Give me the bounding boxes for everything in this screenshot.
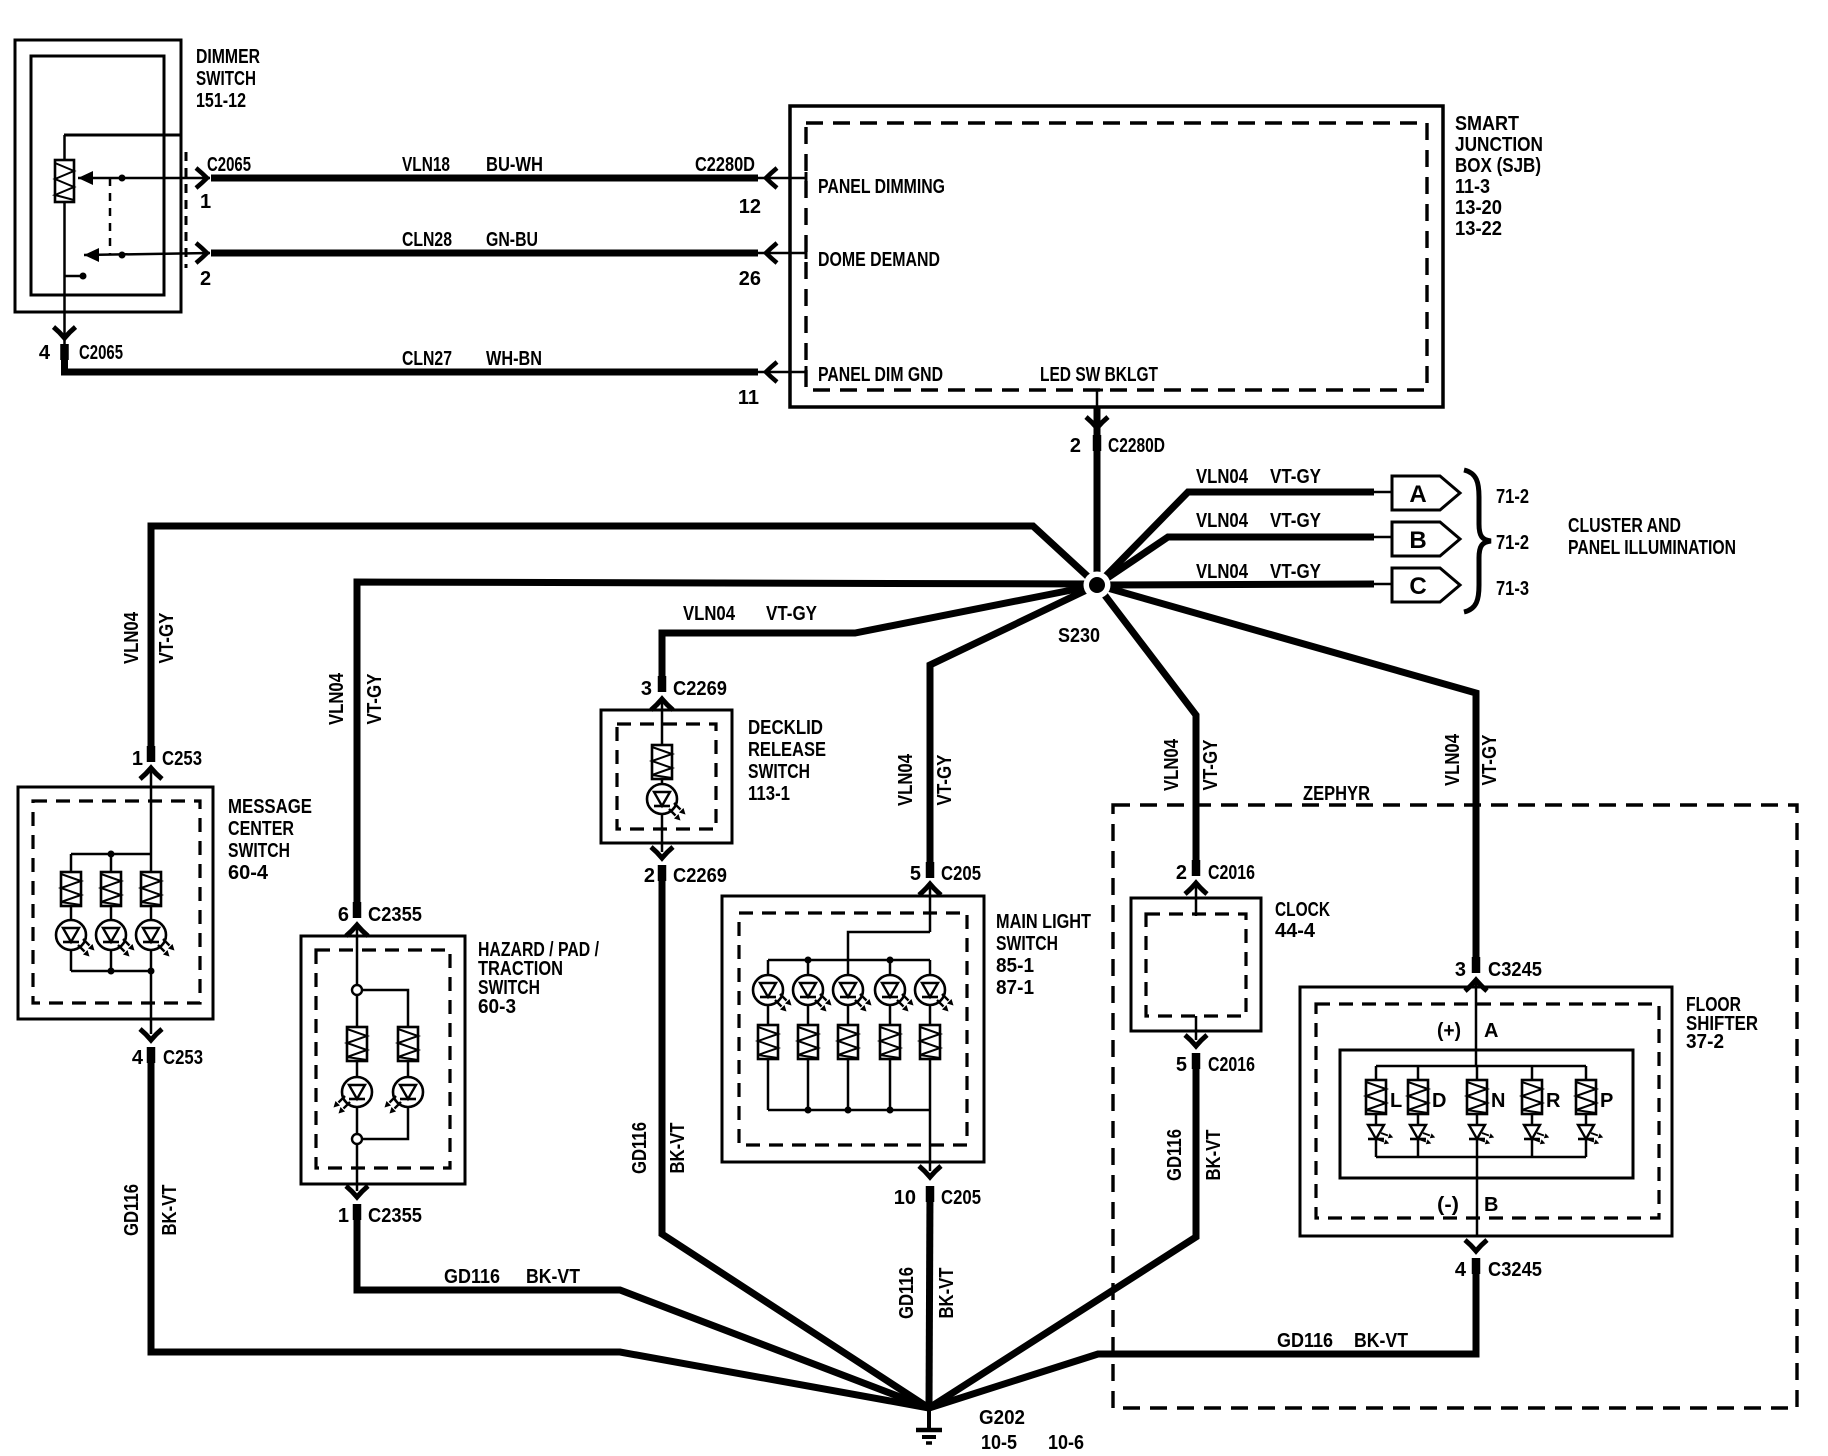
floor column N [1476,1066,1479,1079]
connector C pentagon [1392,568,1460,602]
svg-text:1: 1 [200,191,211,213]
wire [70,950,73,971]
main light column 1 [767,960,770,976]
svg-text:12: 12 [739,196,761,218]
wire out of main light box [929,1110,932,1171]
resistor msg 2 [101,872,121,906]
arrow down at C3245 pin 4 [1465,1240,1487,1251]
wire GD116 BK-VT decklid to ground [662,868,929,1408]
wire S230 to connector A [1097,492,1374,585]
arrow up at C2355 pin 6 [346,925,368,936]
resistor hazard left [347,1027,367,1061]
svg-text:P: P [1600,1090,1613,1112]
svg-text:N: N [1491,1090,1505,1112]
wire S230 to hazard switch [357,582,1097,906]
wire [661,779,664,784]
wire S230 to connector B [1097,537,1374,585]
svg-text:1: 1 [132,748,143,770]
svg-text:SWITCH: SWITCH [748,761,810,783]
wire GD116 BK-VT main light to ground [929,1190,930,1408]
svg-text:VT-GY: VT-GY [1270,561,1322,583]
hazard bottom junction circle [352,1134,362,1144]
junction dot wire 1 [119,175,126,182]
dashed link between wipers [109,178,112,255]
svg-text:C2280D: C2280D [695,154,755,176]
decklid release switch dashed box [617,724,716,829]
svg-text:VT-GY: VT-GY [364,673,386,725]
message center switch label [228,796,312,884]
svg-text:C2016: C2016 [1208,862,1255,884]
svg-text:C: C [1409,573,1426,600]
svg-text:VLN04: VLN04 [326,672,348,725]
svg-text:R: R [1546,1090,1561,1112]
arrow right C2065 pin 2 [196,243,207,263]
junction dots top bus [805,957,812,964]
svg-text:A: A [1484,1020,1498,1042]
svg-text:BK-VT: BK-VT [159,1185,181,1236]
wire into message center box [150,768,153,854]
wiper stub [65,275,80,278]
svg-text:C2269: C2269 [673,678,727,700]
wire [150,906,153,920]
decklid release switch outer box [601,710,732,843]
resistor msg 3 [141,872,161,906]
svg-text:B: B [1409,527,1426,554]
pin stub dome demand [758,252,806,255]
message center switch dashed box [33,801,200,1003]
svg-text:C2355: C2355 [368,904,422,926]
pin stub LED SW BKLGT [1096,390,1099,407]
wire S230 to floor shifter [1097,585,1476,963]
svg-text:CENTER: CENTER [228,818,294,840]
svg-text:2: 2 [1070,435,1081,457]
junction dot top bus [108,851,115,858]
connector tick C2355 pin 6 [356,902,358,918]
svg-text:S230: S230 [1058,625,1100,647]
svg-text:BOX (SJB): BOX (SJB) [1455,155,1541,177]
column 1 wire [70,854,73,872]
wire dimmer wiper feed 1 [78,177,210,180]
arrow down at C2280D pin 2 [1086,417,1108,428]
main light entry jog [848,932,930,960]
connector tick C3245 pin 4 [1475,1258,1477,1274]
svg-text:GD116: GD116 [629,1122,651,1174]
svg-text:B: B [1484,1194,1498,1216]
wire out of clock box [1195,1016,1198,1040]
svg-text:60-3: 60-3 [478,996,516,1018]
arrow up at C205 pin 5 [919,884,941,895]
wiper stub dot [80,273,87,280]
svg-text:SMART: SMART [1455,113,1519,135]
floor column P [1585,1066,1588,1079]
svg-text:C2016: C2016 [1208,1054,1255,1076]
svg-text:11-3: 11-3 [1455,176,1490,198]
connector tick C2016 pin 2 [1195,860,1197,876]
arrow down at C2016 pin 5 [1185,1035,1207,1046]
hazard pad traction switch dashed box [316,950,450,1168]
svg-text:4: 4 [39,342,51,364]
svg-text:VT-GY: VT-GY [1479,734,1501,786]
svg-text:L: L [1390,1090,1402,1112]
connector tick C2269 pin 3 [661,676,663,692]
svg-text:BK-VT: BK-VT [1354,1330,1408,1352]
resistor hazard right [398,1027,418,1061]
svg-text:PANEL DIM GND: PANEL DIM GND [818,364,943,386]
svg-text:85-1: 85-1 [996,955,1034,977]
SJB label block [1455,113,1543,240]
svg-text:2: 2 [644,865,655,887]
wire S230 to message center [151,526,1097,748]
zephyr dashed box [1113,805,1797,1408]
pin stub panel dimming [758,177,806,180]
main light column 2 [807,960,810,976]
LED msg 1 [56,920,95,957]
svg-text:CLN28: CLN28 [402,229,452,251]
svg-text:C205: C205 [941,863,981,885]
svg-text:DOME DEMAND: DOME DEMAND [818,249,940,271]
svg-text:WH-BN: WH-BN [486,348,542,370]
arrow down at C253 pin 4 [140,1029,162,1040]
arrow up at C2016 pin 2 [1185,883,1207,894]
svg-text:DIMMER: DIMMER [196,46,260,68]
wire out of decklid box [661,814,664,852]
wire VLN18 BU-WH dimmer to SJB [211,175,758,182]
wire GD116 BK-VT floor shifter to ground [929,1261,1476,1408]
svg-text:BK-VT: BK-VT [1203,1130,1225,1181]
wire dimmer to pin 4 [63,202,66,344]
floor shifter label [1686,994,1758,1053]
svg-text:BK-VT: BK-VT [667,1123,689,1174]
svg-text:1: 1 [338,1205,349,1227]
svg-text:GD116: GD116 [444,1266,500,1288]
main light column 3 [847,960,850,976]
svg-text:ZEPHYR: ZEPHYR [1303,783,1370,805]
svg-text:2: 2 [1176,862,1187,884]
floor shifter inner box [1340,1050,1633,1178]
top bus main light [768,959,930,962]
svg-text:GD116: GD116 [1164,1129,1186,1181]
arrow down at dimmer pin 4 [54,327,76,338]
wire [407,1061,410,1077]
svg-text:MAIN LIGHT: MAIN LIGHT [996,911,1091,933]
svg-text:VT-GY: VT-GY [1270,510,1322,532]
brace for cluster connectors [1464,470,1491,612]
main light switch outer box [722,896,984,1162]
svg-text:10-5: 10-5 [981,1432,1017,1454]
svg-text:BK-VT: BK-VT [936,1268,958,1319]
dimmer switch sub box top edge [64,134,181,137]
svg-text:BU-WH: BU-WH [486,154,543,176]
arrowhead into rheostat wire 1 [78,171,93,185]
svg-text:RELEASE: RELEASE [748,739,826,761]
svg-text:C2065: C2065 [207,154,251,176]
hazard left column wire [356,995,359,1027]
resistor msg 1 [61,872,81,906]
wire [150,950,153,971]
svg-text:87-1: 87-1 [996,977,1034,999]
svg-text:5: 5 [910,863,921,885]
svg-text:MESSAGE: MESSAGE [228,796,312,818]
floor column R [1531,1066,1534,1079]
junction dots bottom bus [805,1107,812,1114]
LED hazard right [385,1077,424,1114]
splice node S230 [1084,572,1111,599]
LED msg 2 [96,920,135,957]
arrow down at C205 pin 10 [919,1166,941,1177]
svg-text:SWITCH: SWITCH [228,840,290,862]
svg-text:SWITCH: SWITCH [196,68,256,90]
wire [110,906,113,920]
svg-text:37-2: 37-2 [1686,1031,1724,1053]
connector tick C2065 pin 4 [64,344,66,360]
wire into floor shifter box [1475,980,1478,1066]
junction dot bottom bus [108,968,115,975]
LED msg 3 [136,920,175,957]
svg-text:VLN04: VLN04 [895,753,917,806]
arrow right C2065 pin 1 [196,168,207,188]
dimmer switch label [196,46,260,112]
hazard switch label [478,939,599,1018]
arrow up at C253 pin 1 [140,768,162,779]
connector tick C2280D pin 2 [1096,435,1098,451]
svg-text:C3245: C3245 [1488,1259,1542,1281]
arrowhead into dimmer wire 2 [84,248,99,262]
arrow up at C3245 pin 3 [1465,980,1487,991]
svg-text:VLN04: VLN04 [121,611,143,664]
svg-text:5: 5 [1176,1054,1187,1076]
connector A pentagon [1392,476,1460,510]
svg-text:JUNCTION: JUNCTION [1455,134,1543,156]
svg-text:VLN04: VLN04 [1196,561,1249,583]
wire CLN28 GN-BU dimmer to SJB [211,250,758,257]
svg-text:VT-GY: VT-GY [934,754,956,806]
svg-text:6: 6 [338,904,349,926]
svg-text:4: 4 [1455,1259,1467,1281]
svg-text:LED SW BKLGT: LED SW BKLGT [1040,364,1158,386]
svg-text:4: 4 [132,1047,144,1069]
dimmer switch 151-12 outer box [15,40,181,312]
svg-text:GD116: GD116 [1277,1330,1333,1352]
decklid switch label [748,717,826,805]
arrow up at C2269 pin 3 [651,699,673,710]
wire CLN27 WH-BN dimmer pin4 to SJB [65,349,759,372]
wire into main light box [929,884,932,932]
hazard right column to bottom junction [362,1107,408,1139]
resistor decklid [652,745,672,779]
bottom bus floor shifter [1376,1156,1586,1159]
wire [356,1061,359,1077]
clock label [1275,899,1330,942]
svg-text:GD116: GD116 [896,1267,918,1319]
wire out of message center box [150,971,153,1034]
wire S230 to connector C [1097,584,1374,585]
column 2 wire [110,854,113,872]
connector tick C3245 pin 3 [1475,957,1477,973]
svg-text:SWITCH: SWITCH [996,933,1058,955]
clock dashed box [1146,914,1246,1016]
svg-text:71-3: 71-3 [1496,578,1529,600]
wire dimmer feed 2 [84,253,210,255]
smart junction box outer box [790,106,1443,407]
svg-text:2: 2 [200,268,211,290]
svg-text:BK-VT: BK-VT [526,1266,580,1288]
svg-text:10-6: 10-6 [1048,1432,1084,1454]
svg-text:PANEL DIMMING: PANEL DIMMING [818,176,945,198]
dimmer switch inner box [31,56,164,295]
svg-text:VT-GY: VT-GY [766,603,818,625]
svg-text:(-): (-) [1437,1194,1459,1216]
svg-text:60-4: 60-4 [228,862,269,884]
floor shifter dashed box [1316,1004,1659,1218]
connector tick C2269 pin 2 [661,865,663,881]
pin stub panel dim gnd [758,371,806,374]
main light column 5 [929,960,932,976]
wire into clock box [1195,883,1198,916]
wire S230 to main light switch [930,585,1097,868]
svg-text:CLOCK: CLOCK [1275,899,1330,921]
connector tick C253 pin 4 [150,1047,152,1063]
wire GD116 BK-VT clock to ground [929,1056,1196,1408]
svg-text:C2269: C2269 [673,865,727,887]
label CLUSTER AND PANEL ILLUMINATION [1568,515,1736,559]
svg-text:3: 3 [1455,959,1466,981]
main light switch label [996,911,1091,999]
svg-text:71-2: 71-2 [1496,486,1529,508]
svg-text:VLN04: VLN04 [1161,738,1183,791]
svg-text:113-1: 113-1 [748,783,790,805]
svg-text:VT-GY: VT-GY [156,612,178,664]
top bus message center [71,853,151,856]
svg-text:GN-BU: GN-BU [486,229,538,251]
wire SJB pin2 to splice S230 [1094,407,1101,585]
svg-text:DECKLID: DECKLID [748,717,823,739]
svg-text:D: D [1432,1090,1446,1112]
svg-text:3: 3 [641,678,652,700]
smart junction box dashed box [806,123,1427,390]
junction dot wire 2 [119,252,126,259]
svg-text:C2280D: C2280D [1108,435,1165,457]
svg-text:13-20: 13-20 [1455,197,1502,219]
LED decklid [647,784,686,821]
svg-text:A: A [1409,481,1426,508]
svg-text:C205: C205 [941,1187,981,1209]
connector C2065 dashed line [185,152,188,268]
svg-text:71-2: 71-2 [1496,532,1529,554]
svg-text:C2065: C2065 [79,342,123,364]
svg-text:26: 26 [739,268,761,290]
wire GD116 BK-VT hazard to ground [357,1207,929,1408]
arrow down at C2355 pin 1 [346,1186,368,1197]
wire S230 to clock [1097,585,1196,866]
wire sub box left edge [63,135,66,160]
wire [356,1107,359,1134]
main light column 4 [889,960,892,976]
svg-text:GD116: GD116 [121,1184,143,1236]
svg-text:CLUSTER AND: CLUSTER AND [1568,515,1681,537]
connector tick C2016 pin 5 [1195,1053,1197,1069]
wire GD116 BK-VT message to ground [151,1050,929,1408]
wire out of floor shifter inner box [1476,1157,1479,1236]
bottom bus main light [768,1109,930,1112]
svg-text:C2355: C2355 [368,1205,422,1227]
wire out of hazard box [356,1144,359,1191]
svg-text:11: 11 [738,387,759,409]
wire [70,906,73,920]
svg-text:VLN04: VLN04 [1442,733,1464,786]
wire S230 to decklid switch [662,585,1097,686]
arrow left SJB pin 11 [766,362,777,382]
connector tick C205 pin 5 [929,862,931,878]
connector tick C2355 pin 1 [356,1204,358,1220]
hazard pad traction switch outer box [301,936,465,1184]
svg-text:CLN27: CLN27 [402,348,452,370]
LED hazard left [334,1077,373,1114]
svg-text:VT-GY: VT-GY [1270,466,1322,488]
svg-text:151-12: 151-12 [196,90,246,112]
svg-text:44-4: 44-4 [1275,920,1316,942]
wire [110,950,113,971]
svg-text:13-22: 13-22 [1455,218,1502,240]
ground G202 symbol [916,1405,942,1443]
top bus floor shifter [1376,1065,1586,1068]
main light switch dashed box [739,913,967,1145]
svg-text:VLN18: VLN18 [402,154,450,176]
message center switch outer box [18,787,213,1019]
svg-text:VLN04: VLN04 [683,603,736,625]
junction dot bottom bus right [148,968,155,975]
svg-text:C253: C253 [163,1047,203,1069]
svg-text:(+): (+) [1437,1020,1461,1042]
arrow left SJB pin 26 [766,243,777,263]
svg-text:C253: C253 [162,748,202,770]
svg-text:VLN04: VLN04 [1196,466,1249,488]
bottom bus message center [71,970,151,973]
hazard branch wire right [362,990,408,1027]
connector B pentagon [1392,522,1460,556]
hazard top junction circle [352,985,362,995]
clock outer box [1131,898,1261,1031]
column 3 wire [150,854,153,872]
resistor dimmer rheostat [55,160,74,202]
svg-text:VT-GY: VT-GY [1200,739,1222,791]
wire into hazard box [356,925,359,985]
floor shifter outer box [1300,987,1672,1236]
svg-text:PANEL ILLUMINATION: PANEL ILLUMINATION [1568,537,1736,559]
floor column D [1417,1066,1420,1079]
svg-text:VLN04: VLN04 [1196,510,1249,532]
connector tick C205 pin 10 [929,1186,931,1202]
floor column L [1375,1066,1378,1079]
svg-text:G202: G202 [979,1407,1025,1429]
svg-text:C3245: C3245 [1488,959,1542,981]
connector tick C253 pin 1 [150,746,152,762]
arrow left SJB pin 12 [766,168,777,188]
svg-text:10: 10 [894,1187,916,1209]
arrow down at C2269 pin 2 [651,847,673,858]
wire into decklid box [661,699,664,745]
